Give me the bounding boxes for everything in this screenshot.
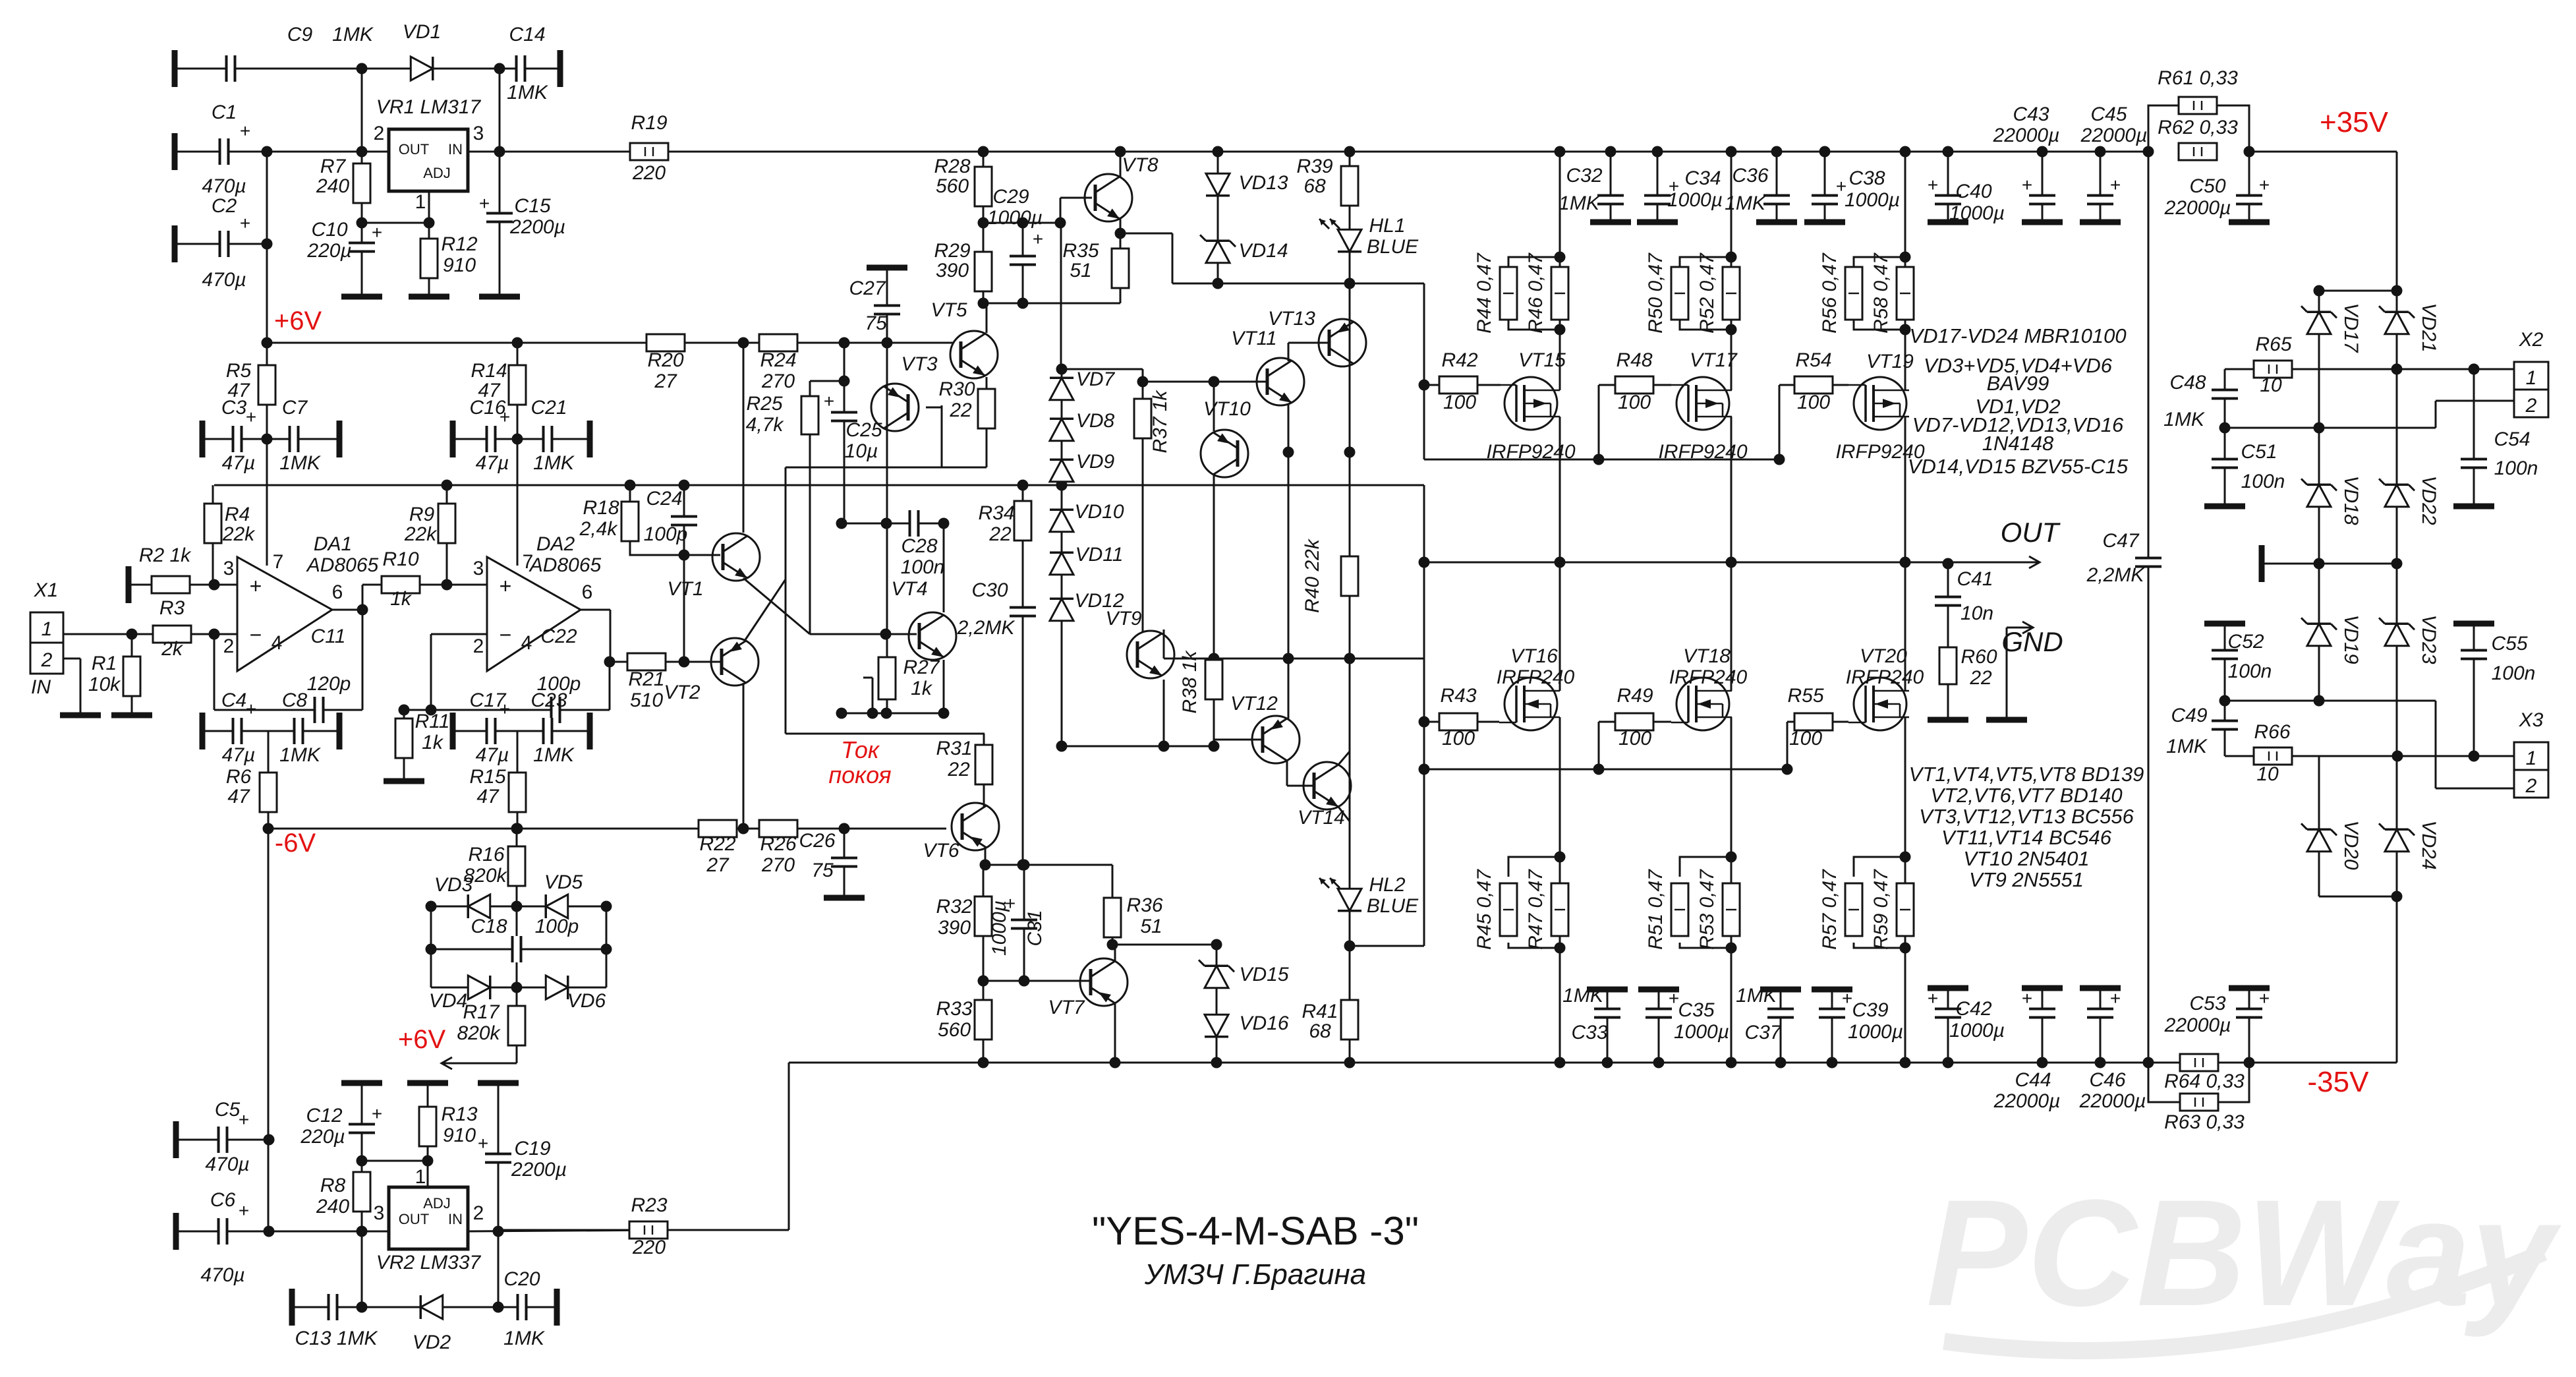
svg-text:22: 22 [949, 399, 972, 421]
svg-text:C7: C7 [282, 397, 308, 419]
svg-text:3: 3 [473, 123, 484, 144]
svg-text:C54: C54 [2494, 428, 2530, 450]
svg-text:R33: R33 [936, 998, 972, 1020]
svg-text:R50 0,47: R50 0,47 [1645, 252, 1667, 334]
svg-text:100n: 100n [2228, 660, 2272, 682]
svg-text:C23: C23 [530, 689, 567, 711]
svg-text:-6V: -6V [275, 829, 316, 858]
svg-text:100n: 100n [2492, 662, 2536, 684]
svg-text:C18: C18 [471, 916, 507, 937]
svg-text:VD14,VD15 BZV55-C15: VD14,VD15 BZV55-C15 [1908, 455, 2129, 478]
svg-text:C42: C42 [1955, 998, 1991, 1020]
svg-text:470µ: 470µ [202, 175, 246, 197]
svg-text:2: 2 [2525, 395, 2537, 417]
svg-text:470µ: 470µ [202, 269, 246, 291]
svg-text:+: + [1928, 988, 1938, 1009]
svg-text:+: + [240, 121, 250, 141]
svg-text:1000µ: 1000µ [1949, 1020, 2005, 1041]
svg-text:R37 1k: R37 1k [1149, 389, 1171, 453]
svg-text:VT10 2N5401: VT10 2N5401 [1963, 847, 2089, 870]
svg-text:−: − [500, 623, 512, 647]
svg-text:470µ: 470µ [205, 1154, 249, 1175]
svg-text:C27: C27 [849, 278, 886, 299]
svg-text:HL1: HL1 [1369, 215, 1405, 237]
svg-text:VT3,VT12,VT13 BC556: VT3,VT12,VT13 BC556 [1919, 805, 2134, 828]
svg-text:R28: R28 [934, 156, 970, 177]
svg-text:100: 100 [1618, 728, 1651, 749]
svg-text:IRFP240: IRFP240 [1846, 666, 1924, 688]
svg-text:C25: C25 [845, 419, 882, 441]
svg-text:VD10: VD10 [1074, 501, 1124, 523]
svg-text:R29: R29 [934, 240, 970, 262]
svg-text:6: 6 [332, 581, 343, 603]
svg-text:560: 560 [938, 1019, 971, 1041]
svg-text:R24: R24 [760, 349, 796, 371]
svg-text:Ток: Ток [841, 736, 880, 763]
svg-text:VT15: VT15 [1518, 349, 1566, 371]
svg-text:R11: R11 [415, 711, 450, 732]
svg-text:220µ: 220µ [300, 1126, 345, 1148]
svg-text:2: 2 [41, 649, 53, 671]
svg-text:+: + [479, 193, 490, 214]
svg-text:VT18: VT18 [1683, 645, 1731, 667]
svg-text:VD20: VD20 [2340, 820, 2362, 869]
svg-text:OUT: OUT [399, 141, 429, 158]
svg-text:C1: C1 [212, 102, 237, 123]
svg-text:C24: C24 [646, 488, 682, 510]
svg-text:1MK: 1MK [503, 1328, 546, 1349]
svg-text:+: + [824, 391, 834, 411]
svg-text:10: 10 [2260, 374, 2282, 396]
svg-text:VD7: VD7 [1076, 368, 1116, 390]
svg-text:C15: C15 [514, 195, 550, 217]
svg-text:R26: R26 [760, 833, 796, 855]
svg-text:VD13: VD13 [1238, 172, 1288, 194]
svg-text:C37: C37 [1744, 1022, 1781, 1043]
svg-text:22k: 22k [222, 523, 256, 545]
svg-text:VT12: VT12 [1230, 693, 1278, 715]
svg-text:VD19: VD19 [2340, 614, 2362, 664]
svg-text:R39: R39 [1296, 156, 1332, 177]
svg-text:1: 1 [2526, 747, 2537, 769]
svg-text:47: 47 [476, 786, 500, 807]
svg-text:1MK: 1MK [279, 452, 322, 474]
svg-text:R51 0,47: R51 0,47 [1645, 869, 1667, 950]
svg-text:C26: C26 [799, 830, 835, 852]
svg-text:VD22: VD22 [2418, 475, 2440, 525]
svg-text:560: 560 [936, 175, 969, 197]
svg-text:VD21: VD21 [2418, 303, 2440, 352]
svg-text:270: 270 [761, 370, 795, 392]
svg-text:390: 390 [936, 260, 969, 281]
svg-text:+: + [239, 1109, 249, 1130]
svg-text:240: 240 [316, 175, 349, 197]
svg-text:+: + [2259, 175, 2270, 195]
svg-text:C38: C38 [1848, 167, 1885, 189]
svg-text:+: + [246, 407, 256, 427]
svg-text:1: 1 [2526, 367, 2537, 389]
svg-text:R13: R13 [441, 1103, 477, 1125]
svg-text:1000µ: 1000µ [1949, 202, 2005, 224]
svg-text:100: 100 [1789, 728, 1822, 749]
svg-text:+: + [1842, 988, 1852, 1009]
svg-text:C12: C12 [306, 1105, 342, 1127]
svg-text:PCBWay: PCBWay [1926, 1168, 2562, 1337]
svg-text:R14: R14 [471, 360, 507, 382]
svg-text:C35: C35 [1678, 999, 1714, 1021]
svg-text:VD23: VD23 [2418, 614, 2440, 664]
svg-text:C47: C47 [2102, 530, 2139, 552]
svg-text:+: + [1033, 229, 1043, 249]
svg-text:R62 0,33: R62 0,33 [2158, 117, 2238, 138]
svg-text:VT20: VT20 [1860, 645, 1907, 667]
svg-text:VT3: VT3 [901, 353, 937, 375]
svg-text:VD16: VD16 [1239, 1012, 1288, 1034]
svg-text:R44 0,47: R44 0,47 [1474, 252, 1495, 334]
svg-text:2: 2 [223, 635, 235, 657]
svg-text:51: 51 [1070, 260, 1091, 281]
svg-text:22: 22 [1969, 667, 1992, 689]
svg-text:C13 1MK: C13 1MK [295, 1328, 378, 1349]
svg-text:R61 0,33: R61 0,33 [2158, 67, 2238, 89]
svg-text:VT1,VT4,VT5,VT8 BD139: VT1,VT4,VT5,VT8 BD139 [1909, 763, 2144, 786]
svg-text:75: 75 [865, 312, 887, 334]
svg-text:C39: C39 [1852, 999, 1888, 1021]
svg-text:R32: R32 [936, 896, 972, 918]
svg-text:+: + [372, 222, 382, 243]
svg-text:C33: C33 [1571, 1022, 1607, 1043]
svg-text:2: 2 [473, 1202, 484, 1224]
svg-text:1: 1 [42, 618, 53, 640]
svg-text:R30: R30 [938, 378, 975, 400]
svg-text:7: 7 [523, 551, 534, 573]
svg-text:27: 27 [654, 370, 677, 392]
svg-text:+: + [250, 574, 262, 598]
svg-text:VR1 LM317: VR1 LM317 [376, 96, 482, 118]
svg-text:3: 3 [223, 558, 235, 579]
svg-text:2,2MK: 2,2MK [2086, 564, 2146, 586]
svg-text:ADJ: ADJ [423, 1195, 451, 1212]
svg-text:51: 51 [1140, 916, 1162, 937]
svg-text:R46 0,47: R46 0,47 [1525, 252, 1547, 334]
svg-text:C55: C55 [2491, 633, 2527, 655]
svg-text:−: − [250, 623, 262, 647]
svg-text:220µ: 220µ [306, 240, 351, 262]
svg-text:4: 4 [521, 632, 532, 654]
svg-text:1MK: 1MK [507, 82, 549, 103]
svg-text:VT13: VT13 [1268, 308, 1315, 330]
svg-text:1MK: 1MK [533, 744, 575, 766]
svg-text:+: + [1928, 175, 1938, 195]
svg-text:C32: C32 [1566, 165, 1602, 187]
svg-text:VD5: VD5 [544, 871, 583, 893]
svg-text:R42: R42 [1441, 349, 1477, 371]
svg-text:6: 6 [582, 581, 593, 603]
svg-text:IRFP240: IRFP240 [1497, 666, 1575, 688]
svg-text:VT16: VT16 [1510, 645, 1558, 667]
svg-text:+: + [372, 1103, 382, 1124]
svg-text:22000µ: 22000µ [2080, 125, 2148, 146]
svg-text:VT7: VT7 [1048, 997, 1085, 1018]
svg-text:R12: R12 [441, 233, 477, 255]
svg-text:VT1: VT1 [667, 578, 703, 600]
svg-text:OUT: OUT [399, 1211, 429, 1227]
svg-text:910: 910 [443, 1125, 476, 1146]
svg-text:R57 0,47: R57 0,47 [1819, 869, 1841, 950]
svg-text:22000µ: 22000µ [1993, 125, 2060, 146]
svg-text:C50: C50 [2189, 175, 2225, 197]
svg-text:VD6: VD6 [567, 990, 606, 1012]
svg-text:HL2: HL2 [1369, 874, 1405, 896]
svg-text:R53 0,47: R53 0,47 [1696, 869, 1718, 950]
svg-text:R47 0,47: R47 0,47 [1525, 869, 1547, 950]
svg-text:VT11,VT14 BC546: VT11,VT14 BC546 [1941, 826, 2112, 849]
svg-text:1MK: 1MK [1562, 985, 1605, 1007]
svg-text:C17: C17 [469, 689, 506, 711]
svg-text:510: 510 [630, 689, 663, 711]
svg-text:47µ: 47µ [222, 452, 256, 474]
svg-text:68: 68 [1309, 1020, 1331, 1042]
svg-text:VT4: VT4 [891, 578, 927, 600]
svg-text:VT6: VT6 [923, 840, 959, 862]
svg-text:R8: R8 [320, 1175, 346, 1196]
svg-text:1: 1 [415, 191, 426, 213]
svg-text:100n: 100n [2494, 457, 2538, 479]
svg-text:R16: R16 [468, 844, 504, 865]
svg-text:R1: R1 [92, 653, 117, 674]
svg-text:1000µ: 1000µ [1674, 1021, 1729, 1043]
svg-text:R59 0,47: R59 0,47 [1870, 869, 1892, 950]
svg-text:C36: C36 [1732, 165, 1768, 187]
svg-text:C44: C44 [2015, 1069, 2051, 1091]
svg-text:C30: C30 [971, 579, 1008, 601]
svg-text:120p: 120p [307, 673, 351, 695]
svg-text:47µ: 47µ [222, 744, 256, 766]
svg-text:22000µ: 22000µ [2164, 1014, 2231, 1036]
svg-text:75: 75 [811, 860, 834, 881]
svg-text:47: 47 [227, 786, 250, 807]
svg-text:C41: C41 [1957, 568, 1993, 590]
svg-text:10k: 10k [88, 674, 121, 695]
svg-text:270: 270 [761, 854, 795, 876]
svg-text:R58 0,47: R58 0,47 [1870, 252, 1892, 334]
svg-text:C29: C29 [992, 186, 1029, 208]
svg-text:VD24: VD24 [2418, 820, 2440, 869]
svg-text:DA2: DA2 [536, 533, 575, 555]
svg-text:1: 1 [415, 1166, 426, 1188]
svg-text:2k: 2k [161, 638, 184, 660]
svg-text:1N4148: 1N4148 [1982, 432, 2054, 455]
svg-text:C51: C51 [2241, 441, 2277, 463]
svg-text:R18: R18 [583, 497, 619, 519]
svg-text:R19: R19 [631, 112, 667, 134]
svg-text:1MK: 1MK [279, 744, 322, 766]
svg-text:47µ: 47µ [476, 744, 509, 766]
svg-text:VD4: VD4 [429, 990, 467, 1012]
svg-text:2: 2 [2525, 775, 2537, 797]
svg-text:1MK: 1MK [1736, 985, 1778, 1007]
svg-text:+: + [478, 1133, 488, 1154]
svg-text:22000µ: 22000µ [2164, 197, 2231, 219]
svg-text:C52: C52 [2227, 631, 2264, 653]
svg-text:1k: 1k [390, 588, 413, 610]
svg-text:820k: 820k [463, 865, 507, 887]
svg-text:R63 0,33: R63 0,33 [2164, 1111, 2245, 1133]
svg-text:R49: R49 [1617, 685, 1653, 707]
svg-text:4: 4 [272, 632, 283, 654]
svg-text:1000µ: 1000µ [1848, 1021, 1903, 1043]
svg-text:R38 1k: R38 1k [1179, 649, 1201, 713]
svg-text:R21: R21 [628, 668, 664, 690]
svg-text:C3: C3 [221, 397, 247, 419]
svg-text:VT17: VT17 [1690, 349, 1738, 371]
svg-text:1000µ: 1000µ [987, 207, 1043, 229]
svg-text:R56 0,47: R56 0,47 [1819, 252, 1841, 334]
svg-text:VT5: VT5 [930, 299, 967, 321]
svg-text:IRFP9240: IRFP9240 [1486, 441, 1575, 463]
svg-text:R45 0,47: R45 0,47 [1474, 869, 1495, 950]
svg-text:+6V: +6V [274, 307, 322, 336]
svg-text:R65: R65 [2255, 334, 2291, 355]
svg-text:47µ: 47µ [476, 452, 509, 474]
svg-text:1MK: 1MK [1559, 192, 1601, 214]
svg-text:R17: R17 [463, 1001, 500, 1023]
svg-text:покоя: покоя [828, 761, 891, 788]
svg-text:C43: C43 [2013, 103, 2049, 125]
svg-text:1k: 1k [911, 678, 933, 699]
svg-text:AD8065: AD8065 [306, 554, 379, 576]
svg-text:470µ: 470µ [200, 1264, 244, 1286]
svg-text:R55: R55 [1787, 685, 1823, 707]
svg-text:C28: C28 [901, 535, 937, 557]
svg-text:1000µ: 1000µ [1667, 189, 1723, 211]
svg-text:C5: C5 [215, 1099, 241, 1121]
svg-text:VT9: VT9 [1105, 608, 1141, 630]
svg-text:VD18: VD18 [2340, 475, 2362, 525]
svg-text:VR2 LM337: VR2 LM337 [376, 1252, 482, 1274]
svg-text:IN: IN [31, 676, 51, 698]
svg-text:+: + [239, 1200, 249, 1221]
svg-text:R25: R25 [746, 393, 782, 415]
svg-text:VT9 2N5551: VT9 2N5551 [1969, 868, 2084, 891]
svg-text:100p: 100p [535, 916, 579, 937]
svg-text:C20: C20 [503, 1268, 540, 1290]
svg-text:OUT: OUT [2001, 517, 2061, 548]
svg-text:VT10: VT10 [1203, 398, 1251, 420]
svg-text:VT19: VT19 [1866, 351, 1914, 372]
svg-text:R10: R10 [382, 548, 418, 570]
svg-text:C53: C53 [2189, 993, 2225, 1014]
svg-text:DA1: DA1 [314, 533, 352, 555]
svg-text:C22: C22 [540, 626, 577, 647]
svg-text:1MK: 1MK [533, 452, 575, 474]
svg-text:10: 10 [2256, 763, 2279, 785]
svg-text:1000µ: 1000µ [1845, 189, 1900, 211]
svg-text:3: 3 [473, 558, 484, 579]
svg-text:22k: 22k [404, 523, 438, 545]
svg-text:R7: R7 [320, 156, 347, 177]
svg-text:220: 220 [632, 162, 666, 184]
svg-text:VD9: VD9 [1076, 451, 1115, 473]
svg-text:C40: C40 [1955, 181, 1991, 202]
svg-text:R23: R23 [631, 1194, 667, 1216]
svg-text:VD14: VD14 [1238, 240, 1288, 262]
svg-text:C16: C16 [469, 397, 505, 419]
svg-text:C34: C34 [1684, 167, 1721, 189]
svg-text:IN: IN [448, 1211, 463, 1227]
svg-text:R27: R27 [903, 657, 940, 678]
svg-text:C6: C6 [210, 1189, 236, 1211]
svg-text:УМЗЧ Г.Брагина: УМЗЧ Г.Брагина [1144, 1258, 1366, 1291]
svg-text:BLUE: BLUE [1367, 236, 1419, 258]
svg-text:22: 22 [988, 523, 1012, 545]
svg-text:C2: C2 [212, 195, 237, 217]
svg-text:"YES-4-M-SAB -3": "YES-4-M-SAB -3" [1092, 1209, 1419, 1253]
svg-text:R9: R9 [409, 504, 435, 525]
svg-text:X1: X1 [34, 579, 59, 601]
svg-text:R48: R48 [1616, 349, 1652, 371]
svg-text:1MK: 1MK [1725, 192, 1767, 214]
svg-text:R35: R35 [1062, 240, 1099, 262]
svg-text:X3: X3 [2519, 709, 2544, 731]
svg-text:100p: 100p [644, 523, 688, 545]
svg-text:C46: C46 [2089, 1069, 2125, 1091]
svg-text:22000µ: 22000µ [2079, 1090, 2146, 1112]
svg-text:10µ: 10µ [845, 440, 878, 462]
svg-text:1000µ: 1000µ [988, 900, 1010, 956]
svg-text:R54: R54 [1795, 349, 1831, 371]
svg-text:C19: C19 [514, 1138, 550, 1159]
svg-text:+: + [2022, 988, 2032, 1009]
svg-text:R31: R31 [936, 738, 972, 759]
svg-text:VT14: VT14 [1298, 807, 1345, 829]
svg-text:VT11: VT11 [1231, 328, 1276, 349]
svg-text:R22: R22 [699, 833, 735, 855]
svg-text:C11: C11 [311, 626, 346, 647]
svg-text:+: + [2259, 988, 2270, 1009]
svg-text:C4: C4 [221, 689, 246, 711]
svg-text:240: 240 [316, 1196, 349, 1217]
svg-text:BLUE: BLUE [1367, 895, 1419, 917]
svg-text:R20: R20 [647, 349, 683, 371]
svg-text:VT2: VT2 [664, 682, 700, 703]
svg-text:C14: C14 [509, 24, 545, 45]
svg-text:R34: R34 [978, 502, 1014, 524]
svg-text:68: 68 [1303, 175, 1326, 197]
svg-text:R66: R66 [2254, 721, 2290, 743]
svg-text:+6V: +6V [398, 1025, 446, 1054]
svg-text:2: 2 [374, 123, 385, 144]
svg-text:R43: R43 [1440, 685, 1476, 707]
svg-text:IRFP240: IRFP240 [1669, 666, 1748, 688]
svg-text:C9: C9 [287, 24, 313, 45]
svg-text:+: + [2022, 175, 2032, 195]
svg-text:100n: 100n [901, 556, 945, 578]
svg-text:IRFP9240: IRFP9240 [1658, 441, 1747, 463]
svg-text:910: 910 [443, 254, 476, 276]
svg-text:+: + [2110, 175, 2121, 195]
svg-text:VD1: VD1 [403, 21, 441, 43]
svg-text:VD17: VD17 [2340, 303, 2362, 353]
svg-text:VD8: VD8 [1076, 410, 1115, 432]
svg-text:2,2MK: 2,2MK [957, 617, 1016, 639]
svg-text:4,7k: 4,7k [746, 414, 785, 436]
svg-text:22000µ: 22000µ [1993, 1090, 2061, 1112]
svg-text:3: 3 [374, 1202, 385, 1224]
svg-text:VT8: VT8 [1122, 154, 1158, 176]
svg-text:10n: 10n [1961, 602, 1993, 624]
svg-text:C10: C10 [311, 219, 347, 241]
